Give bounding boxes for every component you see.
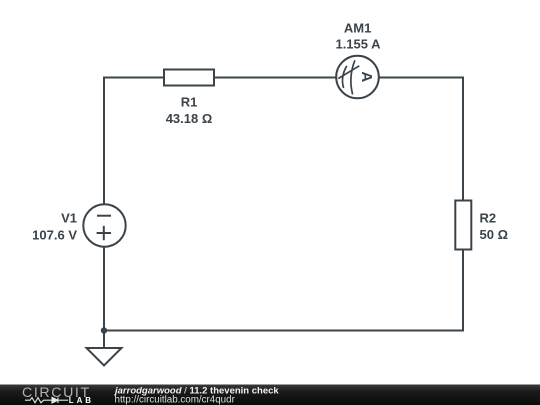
svg-text:http://circuitlab.com/cr4qudr: http://circuitlab.com/cr4qudr: [115, 395, 236, 405]
svg-text:43.18 Ω: 43.18 Ω: [166, 111, 213, 126]
svg-text:R1: R1: [181, 94, 198, 109]
svg-text:V1: V1: [61, 211, 77, 226]
svg-text:1.155 A: 1.155 A: [335, 37, 381, 52]
voltage source V1: [83, 204, 125, 246]
svg-text:A: A: [358, 71, 375, 82]
svg-text:50 Ω: 50 Ω: [480, 227, 509, 242]
svg-text:107.6 V: 107.6 V: [32, 227, 77, 242]
svg-text:AM1: AM1: [344, 20, 371, 35]
resistor R2: [455, 201, 471, 250]
ground: [87, 331, 122, 366]
wire V1 bottom to junction: [103, 247, 105, 331]
svg-text:R2: R2: [480, 211, 497, 226]
wire R1 to AM1: [214, 77, 336, 79]
footer bar: [0, 385, 540, 405]
ammeter AM1: [336, 56, 379, 99]
wire top-left (V1 top to R1 left): [104, 78, 164, 206]
resistor R1: [164, 70, 214, 86]
wire AM1 to top-right corner, down to R2: [379, 78, 463, 201]
junction node: [101, 327, 107, 333]
svg-text:LAB: LAB: [69, 396, 94, 405]
wire R2 to bottom-right corner to junction: [104, 250, 463, 331]
footer logo resistor-diode squiggle: [25, 397, 68, 403]
